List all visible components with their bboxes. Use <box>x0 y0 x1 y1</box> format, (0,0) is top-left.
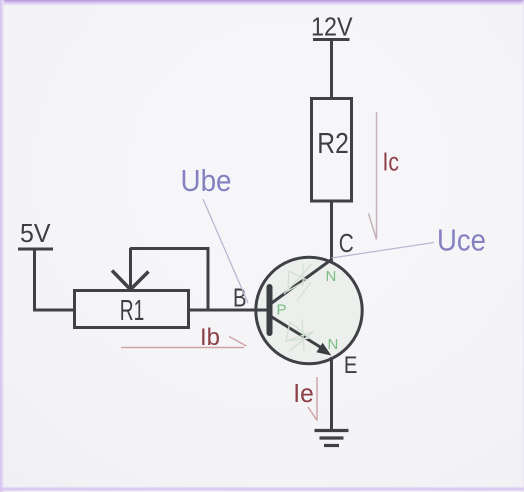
pointer line Ube to base <box>203 199 248 303</box>
svg-text:5V: 5V <box>20 218 51 248</box>
emitter arrowhead <box>317 344 330 355</box>
emitter internal line <box>271 317 325 351</box>
potentiometer R1 body <box>75 291 189 328</box>
svg-text:N: N <box>326 268 337 285</box>
transistor Q1 body <box>256 257 362 363</box>
frame border top <box>0 0 524 7</box>
frame border right <box>523 0 524 492</box>
svg-text:12V: 12V <box>311 12 353 42</box>
wire emitter to ground <box>330 357 333 430</box>
wire R2 to node C <box>330 201 333 263</box>
annotation arrow Ic <box>369 112 377 240</box>
svg-text:Ie: Ie <box>293 378 314 408</box>
wire 12V bar to R2 <box>330 40 333 99</box>
svg-text:R2: R2 <box>317 128 349 160</box>
annotation arrow Ie <box>308 377 317 421</box>
svg-text:P: P <box>277 302 287 319</box>
wire 5V bar down <box>33 249 36 312</box>
svg-text:Ic: Ic <box>383 147 400 177</box>
svg-text:Ib: Ib <box>200 324 220 351</box>
wire 5V to R1 <box>34 309 74 312</box>
collector internal line <box>271 260 332 304</box>
supply terminal 12V bar <box>313 38 350 41</box>
faint junction sketch upper <box>284 264 312 301</box>
faint junction sketch lower <box>286 319 315 351</box>
svg-text:Uce: Uce <box>437 223 486 258</box>
svg-text:C: C <box>339 228 354 258</box>
wiper arrowhead <box>112 271 149 290</box>
svg-text:E: E <box>344 352 358 379</box>
frame border left <box>0 0 5 492</box>
svg-text:R1: R1 <box>120 295 145 327</box>
pointer line Uce to node C <box>332 243 435 259</box>
frame border bottom <box>0 488 524 491</box>
ground <box>315 431 349 446</box>
wiper arrow shaft <box>129 248 132 287</box>
wire R1 to base B <box>189 309 268 312</box>
base bar <box>267 287 273 333</box>
annotation arrow Ib <box>121 337 247 348</box>
wiper feedback wire <box>130 249 208 311</box>
resistor R2 <box>312 99 352 202</box>
supply terminal 5V bar <box>18 248 53 251</box>
svg-text:Ube: Ube <box>181 163 232 198</box>
svg-text:B: B <box>233 285 247 313</box>
svg-text:N: N <box>328 336 339 353</box>
